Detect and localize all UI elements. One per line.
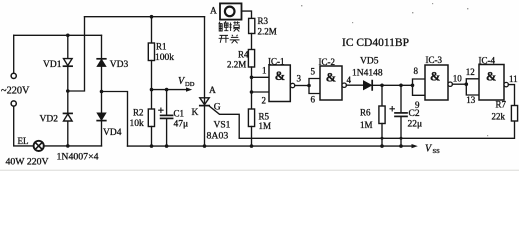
wire top rail (anode A rail) [85, 16, 205, 18]
svg-text:8: 8 [414, 66, 419, 76]
svg-text:1: 1 [262, 66, 267, 76]
wire VDD node [152, 89, 167, 91]
svg-text:R4: R4 [238, 50, 249, 60]
node dot IC-4 input [465, 82, 469, 86]
node dot C2 top [399, 84, 403, 88]
wire pin4 to VD5 [346, 84, 363, 86]
svg-text:&: & [326, 71, 336, 85]
wire pin2 input [252, 91, 270, 93]
wire IC-2 input bar [309, 79, 320, 94]
node dot C1 bottom [165, 144, 169, 148]
svg-text:1N4007×4: 1N4007×4 [57, 152, 99, 163]
wire jog from top rail down to VD1/VD2 junction [68, 17, 85, 91]
svg-text:A: A [210, 7, 217, 17]
svg-text:6: 6 [311, 95, 316, 105]
svg-text:IC-4: IC-4 [479, 56, 496, 66]
svg-text:VD5: VD5 [360, 57, 379, 67]
char guan [230, 35, 240, 44]
thyristor VS1 anode wire [204, 17, 206, 146]
svg-text:VD3: VD3 [110, 60, 129, 70]
wire terminal2 lead down [14, 106, 34, 146]
svg-text:VD2: VD2 [40, 115, 59, 125]
svg-text:10: 10 [453, 74, 463, 84]
wire pin1 input [252, 76, 270, 78]
node dot R5 bottom [250, 144, 254, 148]
svg-text:&: & [430, 70, 440, 84]
svg-text:R6: R6 [360, 108, 371, 118]
wire VSS bottom rail [128, 145, 413, 147]
resistor R6 [381, 85, 383, 106]
wire IC-4 input bar [466, 79, 479, 95]
svg-text:13: 13 [466, 95, 476, 105]
svg-text:4: 4 [347, 75, 352, 85]
terminal circle lower ~220V [11, 101, 16, 106]
wire VD5 cathode to IC-3 [372, 84, 412, 86]
svg-text:~220V: ~220V [1, 86, 30, 97]
gate IC-1 output bubble [290, 83, 294, 87]
thyristor VS1 gate lead [209, 106, 239, 138]
label chujmo kaiguan (touch switch chinese) [219, 21, 240, 43]
resistor R2 [151, 90, 153, 109]
svg-text:VD4: VD4 [103, 128, 122, 138]
svg-text:C1: C1 [174, 109, 185, 119]
svg-text:IC-1: IC-1 [268, 57, 285, 67]
wire pin10 to IC-4 [452, 83, 466, 85]
char kai [219, 35, 229, 42]
wire gate rail to R7 [239, 121, 514, 138]
char mo [229, 23, 232, 32]
gate IC-3 output bubble [448, 82, 452, 86]
svg-text:2.2M: 2.2M [227, 60, 246, 70]
node dot R1/R2 junction [150, 88, 154, 92]
wire IC-3 input bar [413, 79, 426, 95]
svg-text:IC-2: IC-2 [319, 57, 336, 67]
svg-text:12: 12 [466, 67, 475, 77]
diode VD2 [64, 112, 73, 114]
wire bridge branch VD3/VD4 vertical [101, 35, 103, 146]
scan edge line bottom [0, 170, 519, 171]
node dot R2 bottom [150, 144, 154, 148]
resistor R7 [511, 106, 517, 122]
svg-text:K: K [192, 108, 199, 118]
wire terminal1 lead [13, 35, 15, 73]
diode VD4 [97, 113, 106, 120]
svg-text:3: 3 [297, 74, 302, 84]
node dot VS1 cathode bottom [203, 144, 207, 148]
lamp EL [34, 141, 44, 151]
svg-text:1M: 1M [259, 121, 272, 131]
thyristor VS1 [200, 98, 209, 105]
gate IC-3 box [425, 65, 448, 100]
scan speckles [301, 3, 488, 136]
svg-text:G: G [214, 103, 221, 113]
resistor R3 [249, 18, 255, 33]
svg-text:IC-3: IC-3 [426, 55, 443, 65]
capacitor C1 [166, 90, 168, 115]
svg-text:2.2M: 2.2M [258, 27, 277, 37]
svg-text:VS1: VS1 [214, 121, 231, 131]
svg-text:100k: 100k [155, 53, 174, 63]
node dot VD2 bottom lamp wire [66, 144, 70, 148]
resistor R4 [248, 50, 254, 68]
diode VD1 [64, 59, 73, 66]
svg-text:EL: EL [18, 136, 29, 146]
svg-text:SS: SS [433, 148, 441, 155]
svg-text:&: & [486, 70, 496, 84]
op-amp gate IC-1 box [269, 65, 290, 102]
svg-text:R2: R2 [133, 108, 144, 118]
diode VD3 [97, 58, 106, 60]
svg-text:R3: R3 [258, 16, 269, 26]
gate IC-4 output bubble [504, 82, 508, 86]
gate IC-2 box [320, 66, 342, 100]
wire pin11 to R7 [508, 85, 514, 106]
svg-text:DD: DD [185, 81, 195, 88]
gate IC-2 output bubble [342, 83, 346, 87]
svg-text:8A03: 8A03 [207, 130, 229, 141]
touch plate box [220, 3, 242, 19]
wire node Q to VSS rail [102, 92, 128, 147]
svg-text:&: & [275, 69, 285, 83]
svg-text:R7: R7 [496, 100, 507, 110]
resistor R5 [248, 109, 254, 127]
wire lamp to bridge bottom [44, 145, 102, 147]
terminal circle upper ~220V [11, 73, 16, 78]
svg-text:11: 11 [509, 74, 518, 84]
svg-text:R1: R1 [156, 42, 167, 52]
svg-text:VD1: VD1 [43, 60, 62, 70]
svg-text:1N4148: 1N4148 [352, 69, 383, 79]
wire pin3 to IC-2 [295, 85, 309, 87]
svg-text:2: 2 [262, 95, 267, 105]
svg-text:C2: C2 [409, 109, 420, 119]
node dot VD3/VD4 junction Q [100, 90, 104, 94]
node dot R6 top [380, 84, 384, 88]
node dot VD1/VD2 junction [66, 89, 70, 93]
char chu [219, 22, 223, 31]
diode VD5 [364, 81, 372, 90]
capacitor C2 [400, 85, 402, 112]
gate IC-4 box [479, 65, 504, 101]
node dot R1 top rail [150, 15, 154, 19]
wire VDD arrow [167, 89, 187, 91]
node dot IC-2 input [307, 84, 311, 88]
svg-text:40W 220V: 40W 220V [6, 157, 49, 168]
svg-text:IC CD4011BP: IC CD4011BP [342, 37, 409, 49]
svg-text:1M: 1M [360, 120, 373, 130]
svg-text:A: A [209, 86, 216, 96]
svg-text:22μ: 22μ [408, 120, 423, 130]
node dot IC-3 input [411, 84, 415, 88]
svg-text:22k: 22k [492, 112, 506, 122]
wire AC input upper horizontal [14, 34, 102, 36]
wire bridge branch VD1/VD2 vertical [67, 35, 69, 146]
wire touch plate to R3 [242, 11, 252, 17]
VSS arrowhead [412, 144, 418, 148]
node dot VD1 top junction [66, 34, 70, 38]
svg-text:10k: 10k [130, 119, 145, 129]
svg-text:47μ: 47μ [174, 120, 189, 130]
resistor R1 [151, 17, 153, 43]
node dot C1 top [165, 88, 169, 92]
svg-text:R5: R5 [259, 112, 270, 122]
svg-text:5: 5 [311, 67, 316, 77]
